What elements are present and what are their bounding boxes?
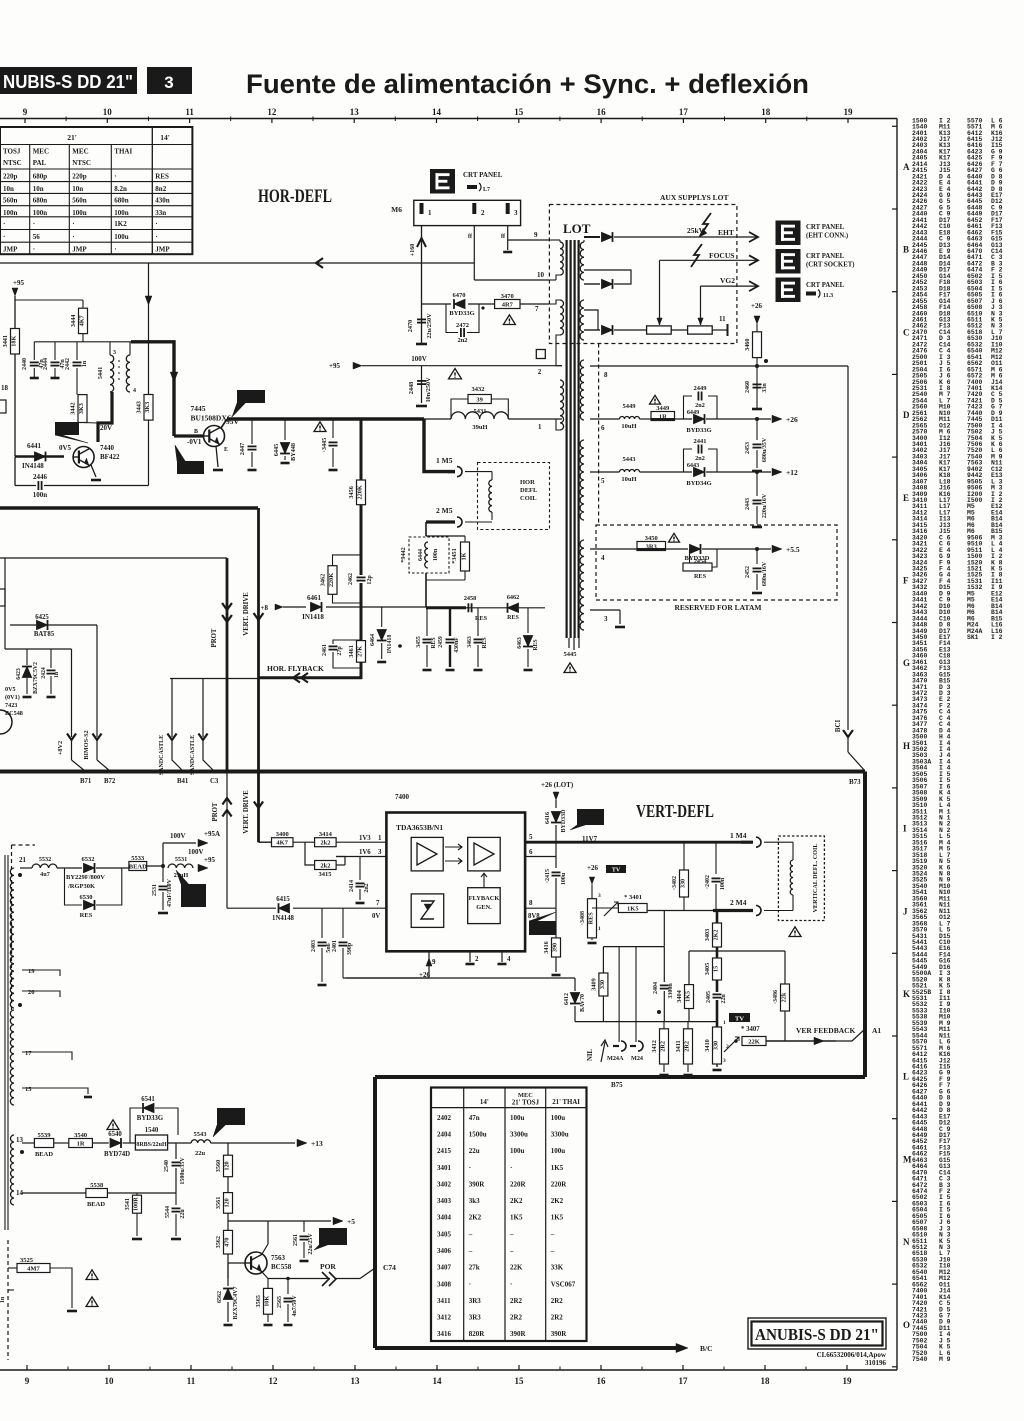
svg-text:6425: 6425 xyxy=(35,614,49,621)
capacitor 2446 100n xyxy=(14,457,16,486)
svg-text:2414: 2414 xyxy=(349,880,355,892)
svg-text:6441: 6441 xyxy=(27,442,42,450)
diode 6532 BY229F/800V xyxy=(57,867,82,869)
svg-text:·: · xyxy=(469,1280,471,1288)
svg-text:3441: 3441 xyxy=(2,335,9,347)
svg-text:·: · xyxy=(3,233,5,241)
wire 2M4 line left xyxy=(647,910,713,912)
svg-text:RES: RES xyxy=(482,637,488,648)
svg-text:5431: 5431 xyxy=(474,408,487,415)
svg-text:B71: B71 xyxy=(80,778,92,785)
capacitor 2565 4n7/50V xyxy=(287,1279,289,1295)
svg-text:B73: B73 xyxy=(849,778,861,786)
svg-text:2K2: 2K2 xyxy=(713,929,720,940)
capacitor 2414 2n2 xyxy=(359,857,361,881)
wire main thick bus y419 xyxy=(227,417,424,421)
svg-text:10n: 10n xyxy=(3,185,14,193)
SOPS winding low xyxy=(11,1135,15,1205)
svg-text:390R: 390R xyxy=(551,1330,568,1338)
svg-text:3: 3 xyxy=(598,893,601,899)
svg-text:2415: 2415 xyxy=(437,1147,452,1155)
svg-text:3443: 3443 xyxy=(136,401,143,413)
svg-text:1K5: 1K5 xyxy=(627,905,639,912)
ground below 2444 xyxy=(51,377,60,380)
svg-text:5445: 5445 xyxy=(564,651,578,658)
svg-text:2: 2 xyxy=(481,209,485,217)
svg-text:BAT85: BAT85 xyxy=(34,631,55,638)
svg-text:21': 21' xyxy=(67,133,77,142)
svg-text:+95: +95 xyxy=(204,856,215,864)
svg-text:15: 15 xyxy=(514,107,524,117)
svg-text:ANUBIS-S DD 21": ANUBIS-S DD 21" xyxy=(755,1325,879,1344)
svg-text:2n2: 2n2 xyxy=(364,883,370,892)
wire horizontal sync line with left arrow xyxy=(0,262,474,264)
wire step winding mid xyxy=(584,310,598,330)
svg-text:IN1418: IN1418 xyxy=(387,635,393,654)
svg-text:100n: 100n xyxy=(72,209,87,217)
svg-text:N: N xyxy=(903,1237,910,1247)
LOT primary winding low xyxy=(560,380,564,430)
svg-text:A1: A1 xyxy=(872,1026,881,1035)
svg-text:3: 3 xyxy=(604,615,608,623)
svg-text:MEC: MEC xyxy=(518,1092,533,1099)
diode 6415 1N4148 xyxy=(227,907,276,909)
black flag near 2531 xyxy=(181,884,206,907)
inductor 5431 39uH xyxy=(451,412,508,419)
svg-text:2n2: 2n2 xyxy=(457,337,467,344)
svg-text:5441: 5441 xyxy=(97,367,104,379)
svg-text:3408: 3408 xyxy=(437,1280,452,1288)
wire sandcastle feed line xyxy=(170,678,258,680)
svg-text:56: 56 xyxy=(33,233,41,241)
svg-text:6415: 6415 xyxy=(276,896,290,903)
svg-text:COIL: COIL xyxy=(520,495,537,502)
svg-text:100n: 100n xyxy=(33,209,48,217)
svg-text:3540: 3540 xyxy=(74,1132,87,1139)
svg-text:6412: 6412 xyxy=(564,993,570,1005)
svg-text:3561: 3561 xyxy=(215,1197,222,1209)
svg-text:D: D xyxy=(903,410,910,420)
svg-text:3562: 3562 xyxy=(215,1236,222,1248)
svg-text:FLYBACK: FLYBACK xyxy=(469,895,500,902)
resistor 3462 220K bypass xyxy=(333,555,362,566)
capacitor 2540 1500u/35V xyxy=(175,1143,177,1159)
svg-text:18: 18 xyxy=(761,1376,771,1386)
inductor 5443 10uH xyxy=(620,470,640,473)
resistor 3449 1R xyxy=(640,418,652,420)
svg-text:3412: 3412 xyxy=(437,1314,452,1322)
black flag right of 2561 xyxy=(319,1228,347,1245)
svg-text:MEC: MEC xyxy=(72,148,88,156)
black flag above 5543 xyxy=(217,1108,245,1125)
op-amp output stage xyxy=(468,837,501,871)
svg-text:–: – xyxy=(468,1247,473,1255)
ground 7440 emitter xyxy=(91,479,101,482)
svg-text:PAL: PAL xyxy=(33,159,47,167)
diode 6449 BYD33G with cap 2449 xyxy=(675,418,693,420)
svg-text:560n: 560n xyxy=(72,197,87,205)
svg-text:BY448: BY448 xyxy=(290,443,297,461)
wire 7563 collector to +5 xyxy=(262,1244,268,1254)
warning triangle 5449 xyxy=(650,395,661,404)
svg-text:1 M4: 1 M4 xyxy=(730,831,747,840)
resistor 3414 2k2 xyxy=(315,838,337,847)
inductor 5544 22n xyxy=(175,1193,177,1205)
svg-text:390R: 390R xyxy=(510,1330,527,1338)
svg-text:1: 1 xyxy=(428,209,432,217)
wire diode line 6470 from pin1 xyxy=(422,303,452,305)
svg-text:470: 470 xyxy=(224,1238,231,1247)
ground below 2440 xyxy=(30,377,39,380)
arrow +26 output xyxy=(751,418,771,420)
capacitor 2405 22n xyxy=(713,993,722,995)
capacitor 2531 47uF/160V xyxy=(162,866,164,882)
svg-text:430nF: 430nF xyxy=(454,637,460,653)
svg-text:–: – xyxy=(509,1247,514,1255)
svg-text:E: E xyxy=(903,493,909,503)
svg-text:47n: 47n xyxy=(469,1114,480,1122)
svg-text:680u/35V: 680u/35V xyxy=(762,437,768,462)
svg-text:BY229F/800V: BY229F/800V xyxy=(66,874,105,881)
svg-text:2443: 2443 xyxy=(745,498,751,510)
svg-text:11: 11 xyxy=(719,315,726,323)
svg-text:THAI: THAI xyxy=(114,148,132,156)
connector M6 pin 3 xyxy=(506,203,510,214)
input resistor 3400 4K7 xyxy=(257,771,260,842)
transformer 5441 windings xyxy=(110,355,114,392)
svg-text:100u: 100u xyxy=(510,1147,525,1155)
svg-text:2K2: 2K2 xyxy=(551,1197,564,1205)
svg-text:100u: 100u xyxy=(510,1114,525,1122)
svg-text:8: 8 xyxy=(529,899,533,907)
svg-text:·2415: ·2415 xyxy=(545,869,551,883)
diode 6530 RES parallel xyxy=(65,868,83,905)
svg-text:220K: 220K xyxy=(357,485,364,499)
svg-text:2441: 2441 xyxy=(694,438,707,445)
resistor 3408 RES xyxy=(588,899,597,938)
wire +8 feed to caps cluster xyxy=(426,606,466,609)
svg-text:560n: 560n xyxy=(3,197,18,205)
IC pin 1 1V3 xyxy=(336,841,386,843)
svg-text:1: 1 xyxy=(723,1020,726,1026)
svg-text:2449: 2449 xyxy=(694,385,708,392)
wire B72 drop xyxy=(96,625,98,737)
svg-text:6462: 6462 xyxy=(507,594,519,601)
resistor 3450 3R3 xyxy=(637,542,666,551)
svg-text:7: 7 xyxy=(535,305,539,313)
transistor 7423 partial xyxy=(0,710,12,734)
wire 7445 emitter ground xyxy=(216,446,218,467)
svg-text:10: 10 xyxy=(103,107,113,117)
IC pin 2 ground xyxy=(469,951,471,962)
svg-text:RES: RES xyxy=(475,615,488,622)
svg-text:+5.5: +5.5 xyxy=(786,545,800,554)
wiper arrow 3410 to 3407 xyxy=(724,1037,739,1052)
capacitor 6444 100n damper xyxy=(425,542,428,568)
svg-text:2405: 2405 xyxy=(706,991,712,1003)
svg-text:·3486: ·3486 xyxy=(773,990,779,1004)
capacitor 2443 220u16V xyxy=(756,472,758,496)
svg-text:220p: 220p xyxy=(72,172,87,180)
svg-text:2k2: 2k2 xyxy=(320,862,330,869)
svg-text:17: 17 xyxy=(679,107,689,117)
svg-text:B41: B41 xyxy=(177,778,189,785)
svg-text:C74: C74 xyxy=(383,1263,396,1272)
svg-text:2: 2 xyxy=(538,368,542,376)
capacitor 2442 1n xyxy=(76,342,78,360)
svg-text:2n2: 2n2 xyxy=(695,402,705,409)
wire vert drive vertical xyxy=(257,508,260,771)
svg-text:3405: 3405 xyxy=(704,963,711,975)
bottom ruler line xyxy=(0,1369,897,1371)
svg-text:27p: 27p xyxy=(337,646,343,656)
svg-text:FOCUS: FOCUS xyxy=(709,251,734,260)
svg-text:18: 18 xyxy=(1,384,9,392)
wire +5.5 rail xyxy=(590,548,637,550)
svg-text:2531: 2531 xyxy=(152,884,158,896)
svg-text:9: 9 xyxy=(534,231,538,239)
diode 6425 BAT85 line xyxy=(10,624,36,626)
svg-text:3410: 3410 xyxy=(704,1039,711,1051)
svg-text:NTSC: NTSC xyxy=(3,159,22,167)
vertical coil winding xyxy=(764,841,793,843)
svg-text:2458: 2458 xyxy=(464,595,476,602)
capacitor 2424 1n xyxy=(50,649,52,668)
svg-text:3400: 3400 xyxy=(276,831,289,838)
svg-text:M 9: M 9 xyxy=(939,1356,951,1363)
LOT primary winding top xyxy=(560,242,563,275)
svg-text:4K7: 4K7 xyxy=(79,315,86,326)
small square connector mark xyxy=(536,350,545,359)
hor defl coil dashed box xyxy=(478,463,550,530)
svg-text:3300u: 3300u xyxy=(551,1131,569,1139)
svg-text:10: 10 xyxy=(537,271,545,279)
svg-text:3: 3 xyxy=(514,209,518,217)
resistor 3540 1R xyxy=(54,1142,69,1144)
svg-text:330: 330 xyxy=(713,1041,720,1050)
svg-text:3: 3 xyxy=(378,848,382,856)
svg-text:3300u: 3300u xyxy=(510,1131,528,1139)
svg-text:3463: 3463 xyxy=(467,636,473,648)
svg-text:390: 390 xyxy=(552,943,559,952)
svg-text:14': 14' xyxy=(480,1098,489,1106)
capacitor 2470 22u/250V xyxy=(417,318,426,320)
svg-text:EHT: EHT xyxy=(718,228,734,237)
svg-text:VER FEEDBACK: VER FEEDBACK xyxy=(796,1026,856,1035)
svg-text:3565: 3565 xyxy=(255,1295,262,1307)
svg-text:TV: TV xyxy=(735,1016,744,1023)
resistor 3403 2K2 xyxy=(713,923,722,947)
svg-text:·3445: ·3445 xyxy=(321,438,328,452)
inductor 5543 22u xyxy=(168,1142,192,1144)
wire PROT below bus with chevrons xyxy=(226,771,228,908)
wire 7563 emitter line POR xyxy=(262,1272,268,1279)
svg-text:2R2: 2R2 xyxy=(684,1041,691,1052)
svg-text:4n7/50V: 4n7/50V xyxy=(292,1295,298,1317)
svg-text:5544: 5544 xyxy=(165,1206,171,1218)
svg-text:22u: 22u xyxy=(180,1209,186,1219)
svg-text:3405: 3405 xyxy=(437,1230,452,1238)
svg-text:3409: 3409 xyxy=(590,978,597,990)
svg-text:2R2: 2R2 xyxy=(660,1041,667,1052)
black flag near 8V8 xyxy=(529,921,556,935)
wire +12 rail xyxy=(590,471,620,473)
svg-text:*9442: *9442 xyxy=(400,547,407,562)
resistor 3444 4K7 xyxy=(79,308,88,333)
connector M6 pin 2 xyxy=(472,203,476,214)
zener 6562 BZX79C4V7 xyxy=(227,1263,229,1286)
svg-text:VERT-DEFL: VERT-DEFL xyxy=(636,801,714,821)
LOT secondary mid winding xyxy=(580,300,584,340)
capacitor 2452 680u16V xyxy=(756,549,758,564)
wire bus to LOT pin 1 xyxy=(508,418,562,420)
wire 2M5 drop to damper xyxy=(425,522,427,536)
svg-text:BYD33G: BYD33G xyxy=(137,1115,164,1122)
capacitor 2401 390p xyxy=(342,908,344,938)
svg-text:100V: 100V xyxy=(188,848,204,856)
svg-text:100u: 100u xyxy=(551,1114,566,1122)
resistor 3460 xyxy=(753,332,762,358)
svg-text:2442: 2442 xyxy=(65,358,71,370)
diode 6412 BAV70 xyxy=(574,978,576,991)
svg-text:5443: 5443 xyxy=(623,456,637,463)
svg-text:17: 17 xyxy=(679,1376,689,1386)
svg-text:6463: 6463 xyxy=(517,637,523,649)
svg-text:680n: 680n xyxy=(114,197,129,205)
junction dot flyback area xyxy=(398,644,402,648)
svg-text:13: 13 xyxy=(351,1376,361,1386)
wire focus tap down to pot xyxy=(659,260,661,325)
warning triangle below 3470 xyxy=(503,315,515,325)
svg-text:6464: 6464 xyxy=(370,634,376,646)
svg-text:BF422: BF422 xyxy=(100,453,120,461)
svg-text:18K: 18K xyxy=(11,336,18,347)
capacitor 2525 1n xyxy=(8,1289,14,1291)
svg-text:2k2: 2k2 xyxy=(320,840,330,847)
svg-text:/RGP30K: /RGP30K xyxy=(67,883,95,890)
svg-text:10uH: 10uH xyxy=(621,423,636,430)
svg-text:15: 15 xyxy=(25,1086,32,1093)
svg-text:BYD34G: BYD34G xyxy=(686,480,711,487)
svg-text:L: L xyxy=(903,1072,909,1082)
svg-text:+95A: +95A xyxy=(204,830,220,838)
svg-text:39uH: 39uH xyxy=(472,424,487,431)
svg-text:2453: 2453 xyxy=(745,442,751,454)
clipped component left edge y405 xyxy=(0,400,6,413)
svg-text:BYD74D: BYD74D xyxy=(104,1151,130,1158)
dashed box RESERVED FOR LATAM xyxy=(596,525,837,600)
svg-text:3406: 3406 xyxy=(437,1247,452,1255)
svg-text:RES: RES xyxy=(533,639,539,650)
svg-text:M24A: M24A xyxy=(607,1055,624,1062)
wire thick 5441 to 7440 collector xyxy=(98,392,112,442)
SOPS winding mid xyxy=(10,1010,14,1105)
svg-text:7540: 7540 xyxy=(912,1356,928,1363)
black flag below 7445 base xyxy=(177,461,204,474)
svg-text:2448: 2448 xyxy=(408,382,415,394)
svg-text:2460: 2460 xyxy=(745,381,751,393)
svg-text:120: 120 xyxy=(224,1161,231,1170)
svg-text:4R7: 4R7 xyxy=(502,301,514,308)
resistor 3561 120 xyxy=(227,1177,229,1193)
svg-text:2 M5: 2 M5 xyxy=(436,506,453,515)
capacitor 2444 47n xyxy=(54,342,56,360)
svg-text:2424: 2424 xyxy=(41,667,47,679)
svg-text:2R2: 2R2 xyxy=(510,1297,523,1305)
diode 6463 vertical xyxy=(527,608,529,633)
potentiometer focus xyxy=(647,326,672,334)
IC pin 9 +26 xyxy=(428,951,430,966)
wire 7440 emitter to ground xyxy=(91,465,96,477)
connector M6 pin 1 xyxy=(420,203,424,214)
IC pin 3 1V6 xyxy=(336,856,386,858)
svg-text:·: · xyxy=(114,246,116,254)
svg-text:6445: 6445 xyxy=(273,444,280,456)
svg-text:11: 11 xyxy=(185,107,194,117)
warning triangle 6540 xyxy=(107,1120,119,1130)
wire +95 down xyxy=(14,296,16,456)
svg-text:15: 15 xyxy=(713,966,720,972)
svg-text:3456: 3456 xyxy=(348,486,355,498)
dashed page edge bottom xyxy=(7,1240,9,1360)
svg-text:100n: 100n xyxy=(33,491,48,499)
header model box NUBIS-S DD 21 xyxy=(0,67,137,94)
svg-text:B/C: B/C xyxy=(700,1344,713,1353)
wire pin8 line to BCI xyxy=(590,365,848,367)
svg-text:3K3: 3K3 xyxy=(78,403,85,414)
svg-text:22k: 22k xyxy=(781,992,788,1002)
svg-text:BCI: BCI xyxy=(834,720,842,733)
resistor 2454 RES below xyxy=(689,549,691,567)
svg-text:6416: 6416 xyxy=(545,812,551,824)
resistor 3415 2k2 xyxy=(305,842,315,865)
bead 5538 xyxy=(86,1189,108,1198)
svg-text:+26: +26 xyxy=(751,302,762,310)
capacitor 2458 RES series xyxy=(467,603,469,612)
svg-text:4: 4 xyxy=(601,554,605,562)
svg-text:3442: 3442 xyxy=(70,402,77,414)
svg-text:1500u/35V: 1500u/35V xyxy=(180,1157,186,1185)
svg-text:JMP: JMP xyxy=(3,246,18,254)
wire left column down xyxy=(4,558,6,649)
svg-text:14: 14 xyxy=(433,1376,443,1386)
svg-text:RES: RES xyxy=(694,573,707,580)
wire prot vertical xyxy=(226,558,229,771)
svg-text:10K: 10K xyxy=(264,1296,271,1307)
svg-text:BZX79C5V2: BZX79C5V2 xyxy=(33,662,39,694)
flyback generator block xyxy=(468,888,501,924)
svg-text:3404: 3404 xyxy=(676,990,683,1002)
svg-text:3412: 3412 xyxy=(651,1040,658,1052)
svg-text:1: 1 xyxy=(378,834,382,842)
wire thick base 7445 xyxy=(174,434,204,437)
svg-text:I 2: I 2 xyxy=(991,634,1003,641)
svg-text:MEC: MEC xyxy=(33,148,49,156)
wire sandcastle C3 xyxy=(202,679,204,738)
svg-text:VERT. DRIVE: VERT. DRIVE xyxy=(243,790,250,834)
svg-text:9: 9 xyxy=(23,107,28,117)
capacitor 2453 680u35V xyxy=(756,419,758,440)
wire vg2 tap down to pot xyxy=(700,286,702,325)
LOT secondary EHT winding xyxy=(580,242,584,280)
svg-text:* 3407: * 3407 xyxy=(741,1026,760,1033)
label VERT DRIVE below bus xyxy=(254,802,263,809)
svg-text:SANDCASTLE: SANDCASTLE xyxy=(159,735,165,775)
svg-text:B75: B75 xyxy=(611,1081,623,1089)
svg-text:10uH: 10uH xyxy=(621,476,636,483)
svg-text:3R3: 3R3 xyxy=(469,1314,482,1322)
svg-text:6530: 6530 xyxy=(80,894,93,901)
